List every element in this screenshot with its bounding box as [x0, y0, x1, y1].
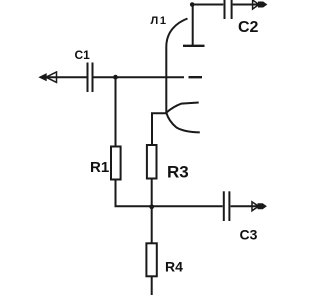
svg-text:C1: C1 [75, 48, 91, 62]
svg-text:R1: R1 [90, 159, 109, 176]
svg-text:C2: C2 [238, 19, 259, 36]
svg-text:R4: R4 [165, 259, 183, 275]
svg-text:C3: C3 [240, 227, 258, 243]
svg-text:R3: R3 [167, 163, 189, 182]
svg-text:Л1: Л1 [151, 15, 168, 27]
